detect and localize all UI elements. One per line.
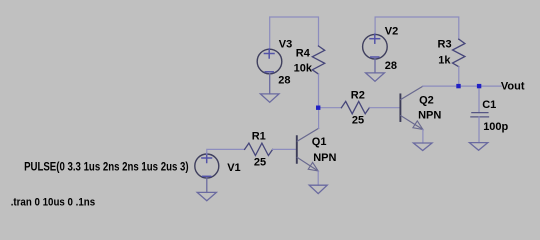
svg-text:V3: V3 [279,38,292,50]
svg-text:25: 25 [254,157,266,169]
svg-text:1k: 1k [438,54,451,66]
svg-text:R1: R1 [252,131,266,143]
svg-text:100p: 100p [483,121,508,133]
svg-text:28: 28 [385,60,397,72]
svg-text:Q2: Q2 [419,95,434,107]
svg-text:NPN: NPN [313,152,336,164]
svg-text:R4: R4 [296,48,311,60]
ground under C1 [469,143,487,151]
ground under V1 [197,178,216,201]
voltage source V3 [257,49,282,74]
wire Q1 emitter down [317,171,319,185]
junction node at C1 top [477,84,481,88]
transistor Q1 [297,128,319,171]
junction node at R4/Q1/R2 [316,106,320,110]
resistor R1 [245,143,273,155]
svg-text:PULSE(0 3.3 1us 2ns 2ns 1us 2u: PULSE(0 3.3 1us 2ns 2ns 1us 2us 3) [24,161,189,173]
svg-text:NPN: NPN [418,110,441,122]
svg-text:C1: C1 [482,99,496,111]
svg-text:R2: R2 [351,90,365,102]
voltage source V2 [363,34,388,59]
ground under V3 [260,74,279,103]
wire V3 top to R4 top [270,17,319,49]
svg-text:.tran 0 10us 0 .1ns: .tran 0 10us 0 .1ns [11,197,96,209]
wire Q2 emitter down [422,130,424,144]
wire R3 bottom to junction [458,67,460,86]
wire Q2 collector to Vout [423,85,501,87]
wire junction to R2 [319,107,342,109]
svg-text:V2: V2 [385,26,398,38]
svg-text:Q1: Q1 [312,136,327,148]
ground under Q1 [309,185,327,193]
svg-text:25: 25 [352,115,364,127]
wire R1 to Q1 base [273,148,297,150]
transistor Q2 [400,86,423,129]
ground under V2 [366,59,385,81]
wire Q1 collector to junction [318,108,320,129]
junction node at R3 bottom [456,84,460,88]
resistor R2 [341,101,369,113]
wire R4 bottom to junction [318,74,320,108]
wire V1 to R1 [207,149,245,154]
ground under Q2 [413,143,432,151]
wire R2 to Q2 base [369,107,400,109]
capacitor C1 [478,86,480,113]
resistor R4 [312,46,324,74]
wire V2 top to R3 top [375,17,459,39]
resistor R3 [453,39,465,66]
voltage source V1 [195,154,219,178]
svg-text:Vout: Vout [501,80,525,92]
svg-text:V1: V1 [227,162,240,174]
svg-text:28: 28 [278,75,290,87]
svg-text:R3: R3 [438,39,452,51]
svg-text:10k: 10k [294,63,313,75]
